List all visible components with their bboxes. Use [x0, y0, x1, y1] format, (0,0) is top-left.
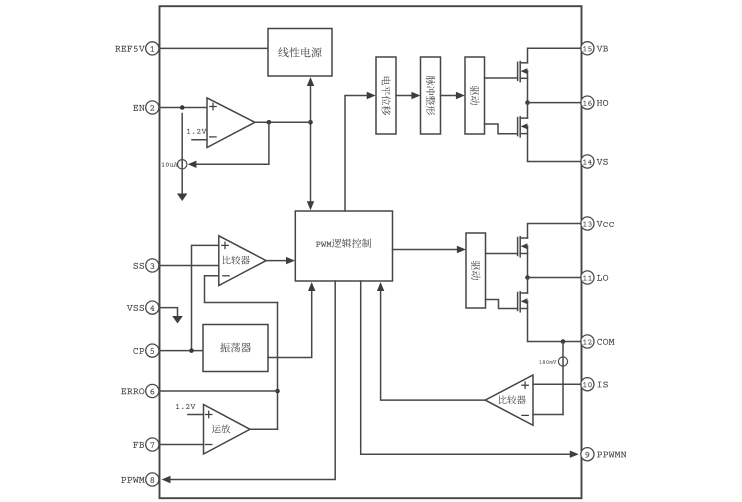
wire CP pin5 to oscillator [160, 350, 204, 352]
op-amp U1 EN comparator [207, 98, 255, 148]
wire Q4 drain to LO node [527, 278, 529, 294]
wire driver to Q3 gate [486, 253, 518, 255]
arrow right into high side driver [456, 92, 465, 99]
label 运放 (U3) [212, 424, 230, 433]
op-amp U4 current-limit comparator (比较器) [485, 375, 533, 425]
label 180mV [539, 360, 556, 364]
arrow left into current source I1 [188, 161, 197, 168]
arrow right into pin 9 [570, 451, 579, 458]
wire U4 output to PWM logic [381, 290, 486, 400]
wire Q2 source to VS [528, 126, 582, 161]
pin 11 LO [581, 271, 594, 284]
block PWM logic control (PWM逻辑控制) [295, 211, 392, 281]
pin 4 VSS [146, 301, 159, 314]
ground under I1 [177, 194, 188, 202]
IC boundary box [160, 6, 582, 498]
wire U2 output to PWM logic [266, 260, 287, 262]
pin 1 REF5V [146, 42, 159, 55]
wire HO node to pin 16 [528, 102, 582, 104]
wire U1 feedback to current source [196, 122, 269, 164]
transistor Q4 (low-side lower) [517, 293, 519, 311]
op-amp U3 error amplifier (运放) [204, 405, 251, 455]
wire 1.2V reference stub to op-amp U3 + [188, 414, 204, 416]
arrow up into PWM logic from oscillator [308, 282, 315, 291]
block linear supply (线性电源) [268, 29, 332, 77]
wire REF5V pin1 to linear-supply [160, 47, 269, 49]
wire U4 - to 180mV source [533, 414, 563, 416]
label 比较器 (U4) [499, 395, 526, 404]
label 1.2V (U3) [176, 404, 195, 409]
wire Q2 drain to HO node [527, 103, 529, 119]
label 10uA [162, 163, 178, 167]
arrow up into PWM logic from U4 [377, 282, 384, 291]
wire PWM logic to low side driver (LIN) [393, 249, 459, 251]
wire U3 output to error net [250, 428, 278, 430]
transistor Q3 (low-side upper) [517, 238, 519, 256]
arrow left into pin 8 [162, 476, 171, 483]
pin 2 EN [146, 101, 159, 114]
pin 16 HO [581, 96, 594, 109]
voltage source V1 180mV [562, 342, 564, 415]
op-amp U2 PWM comparator (比较器) [219, 236, 266, 286]
wire EN pin2 to comparator U1 + [160, 107, 207, 109]
wire VSS pin4 stub [160, 308, 178, 316]
arrow right into low side driver [457, 246, 466, 253]
current source I1 10uA [181, 114, 183, 195]
pin 14 VS [581, 155, 594, 168]
pin 5 CP [146, 344, 159, 357]
wire Q3 drain to Vcc [528, 224, 582, 239]
wire driver to Q4 gate [486, 300, 518, 309]
wire driver to Q2 gate [485, 124, 518, 134]
block low-side driver (驱动) [466, 233, 486, 308]
block level shift (电平位移) [376, 57, 396, 134]
block pulse shaping (脉冲整形) [421, 57, 441, 134]
arrow right into level shifter [367, 92, 376, 99]
wire Q1 source to HO node [527, 71, 529, 103]
wire Q4 source to COM [528, 301, 582, 341]
transistor Q2 (high-side lower) [517, 118, 519, 136]
arrow right into PWM logic left [286, 257, 295, 264]
block oscillator (振荡器) [203, 325, 268, 372]
pin 3 SS [146, 259, 159, 272]
block high-side driver (驱动) [465, 57, 485, 134]
wire oscillator output to PWM logic [268, 290, 312, 358]
wire Q1 drain to VB [528, 48, 582, 63]
pin 9 PPWMN [581, 448, 594, 461]
wire error net vertical (node COMP) [277, 303, 279, 430]
transistor Q1 (high-side upper) [517, 62, 519, 80]
wire driver to Q1 gate [485, 77, 518, 79]
ground VSS [172, 316, 183, 324]
pin 7 FB [146, 438, 159, 451]
wire Q3 source to LO node [527, 246, 529, 277]
pin 12 COM [581, 335, 594, 348]
pin 6 ERRO [146, 384, 159, 397]
arrow up into linear supply [307, 77, 314, 86]
wire SS pin3 to comparator U2 [160, 265, 219, 267]
pin 10 IS [581, 378, 594, 391]
wire pulse shaper to high side driver [441, 95, 458, 97]
wire 1.2V reference stub to U1 - [192, 139, 207, 141]
pin 13 Vcc [581, 217, 594, 230]
wire U2 + input from CP ramp [192, 245, 219, 350]
wire U4 + to IS pin10 [533, 383, 581, 385]
wire linear-supply bottom rail to PWM logic (node VREG) [310, 84, 312, 203]
wire LO node to pin 11 [528, 277, 582, 279]
wire U2 - input from error amp [205, 276, 278, 303]
arrow down into PWM logic top [307, 201, 314, 210]
wire PWM logic to PPWMN pin9 [361, 281, 571, 454]
wire PWM logic to level shifter (HIN) [345, 96, 368, 212]
label 比较器 (U2) [223, 256, 250, 265]
wire PWM logic to PPWM pin8 [170, 281, 335, 480]
pin 15 VB [581, 42, 594, 55]
label 1.2V (U1) [187, 129, 206, 134]
pin 8 PPWM [146, 473, 159, 486]
wire FB pin7 to U3 - [160, 444, 204, 446]
wire U1 output to VREG rail [255, 121, 311, 123]
wire ERRO pin6 to error net [160, 390, 278, 392]
arrow right into pulse shaper [411, 92, 420, 99]
wire level shift to pulse shaper [396, 95, 413, 97]
